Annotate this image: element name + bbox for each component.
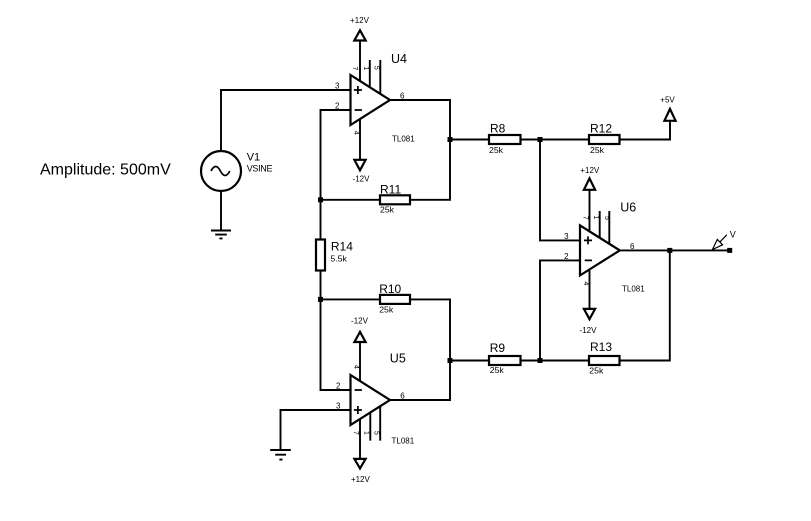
svg-text:25k: 25k [490, 365, 505, 375]
svg-text:5: 5 [603, 216, 610, 220]
svg-text:R13: R13 [590, 340, 612, 354]
svg-text:V: V [730, 229, 736, 239]
svg-text:1: 1 [362, 431, 369, 435]
svg-text:R9: R9 [490, 341, 506, 355]
svg-text:6: 6 [400, 91, 405, 100]
svg-text:3: 3 [336, 401, 341, 410]
svg-text:+12V: +12V [351, 475, 371, 484]
svg-text:R14: R14 [331, 240, 353, 254]
svg-text:25k: 25k [380, 205, 395, 215]
svg-text:25k: 25k [489, 145, 504, 155]
svg-text:3: 3 [335, 82, 340, 91]
svg-text:+12V: +12V [350, 16, 370, 25]
svg-text:25k: 25k [590, 145, 605, 155]
svg-text:U5: U5 [390, 352, 406, 366]
svg-text:3: 3 [564, 232, 569, 241]
svg-text:TL081: TL081 [392, 436, 415, 445]
svg-text:25k: 25k [589, 365, 604, 375]
svg-text:5: 5 [373, 431, 380, 435]
svg-text:TL081: TL081 [392, 135, 415, 144]
svg-text:5.5k: 5.5k [330, 254, 347, 264]
svg-text:+5V: +5V [660, 95, 675, 104]
svg-text:7: 7 [352, 431, 359, 435]
svg-text:R11: R11 [380, 182, 401, 196]
svg-text:25k: 25k [379, 304, 394, 314]
svg-text:-12V: -12V [351, 316, 369, 325]
svg-text:6: 6 [400, 392, 405, 401]
svg-text:+12V: +12V [580, 166, 600, 175]
svg-text:1: 1 [362, 67, 369, 71]
svg-text:7: 7 [582, 216, 589, 220]
svg-text:R12: R12 [590, 121, 612, 135]
svg-text:7: 7 [351, 67, 358, 71]
svg-text:V1: V1 [247, 152, 260, 164]
svg-text:U4: U4 [391, 52, 407, 66]
svg-text:-12V: -12V [353, 175, 371, 184]
svg-text:U6: U6 [620, 201, 636, 215]
svg-text:R8: R8 [490, 121, 506, 135]
svg-text:2: 2 [335, 102, 340, 111]
svg-text:R10: R10 [379, 282, 401, 296]
svg-text:4: 4 [353, 131, 360, 135]
svg-text:4: 4 [353, 365, 360, 369]
svg-text:TL081: TL081 [622, 285, 645, 294]
svg-text:-12V: -12V [580, 326, 598, 335]
svg-text:6: 6 [630, 242, 635, 251]
svg-text:2: 2 [336, 382, 341, 391]
svg-text:2: 2 [564, 252, 569, 261]
svg-text:1: 1 [592, 216, 599, 220]
svg-text:4: 4 [582, 282, 589, 286]
svg-text:5: 5 [372, 66, 379, 70]
svg-text:VSINE: VSINE [247, 164, 273, 174]
svg-text:Amplitude: 500mV: Amplitude: 500mV [40, 162, 171, 179]
